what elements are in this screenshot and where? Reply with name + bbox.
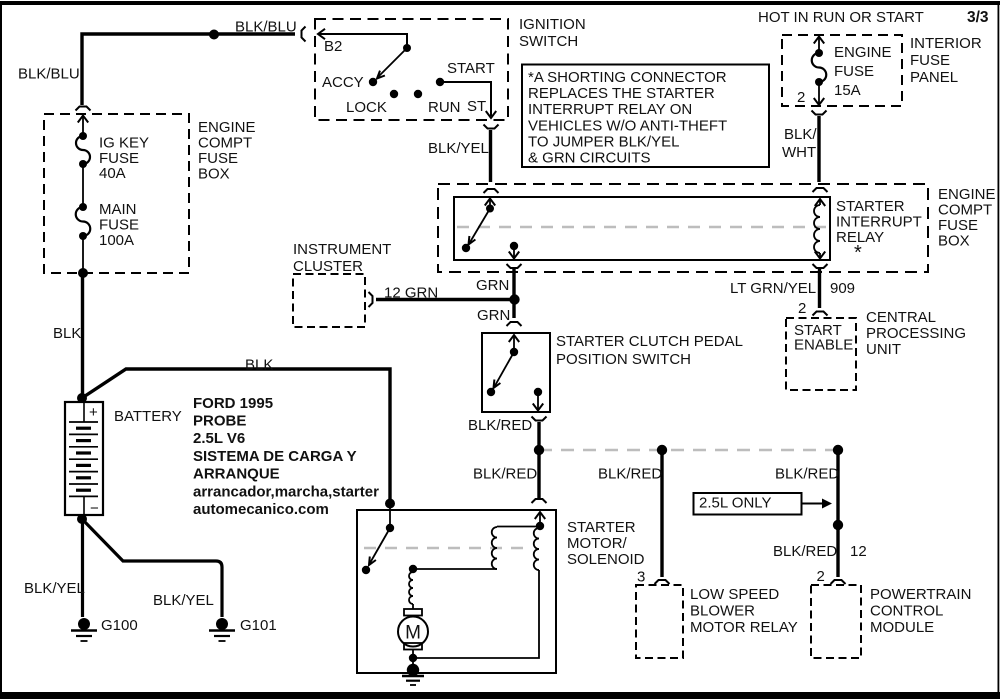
- connector into PCM: [831, 580, 846, 584]
- connector into blower relay: [655, 580, 670, 584]
- svg-text:40A: 40A: [99, 165, 126, 182]
- border frame: [0, 1, 1000, 5]
- contact ACCY: [369, 78, 377, 86]
- svg-text:15A: 15A: [834, 82, 861, 99]
- svg-text:ACCY: ACCY: [322, 74, 364, 91]
- svg-text:3: 3: [637, 568, 645, 585]
- fuse ENGINE FUSE 15A: [815, 49, 823, 57]
- arrow 2.5L ONLY pointer: [802, 503, 829, 505]
- connector into relay (switch side): [484, 189, 499, 193]
- motor M1 starter: [412, 604, 414, 609]
- motor field coil: [409, 572, 413, 604]
- svg-text:& GRN CIRCUITS: & GRN CIRCUITS: [528, 150, 651, 167]
- low speed blower motor relay box: [636, 585, 683, 658]
- connector into ignition switch: [302, 27, 306, 42]
- wire hold-in coil to motor bottom: [413, 570, 539, 658]
- wire pull-in coil to motor node: [413, 568, 497, 570]
- svg-text:FUSE: FUSE: [910, 52, 950, 69]
- wire 2.5L dashed bus: [539, 449, 838, 452]
- connector below relay (coil side): [813, 264, 828, 268]
- note box: [522, 65, 769, 168]
- svg-text:COMPT: COMPT: [198, 134, 252, 151]
- connector below ignition switch: [484, 125, 499, 129]
- ground starter case: [402, 675, 424, 678]
- solenoid pull-in coil: [492, 527, 497, 569]
- svg-text:M: M: [405, 623, 421, 644]
- node motor bottom: [409, 654, 417, 662]
- node motor top: [409, 565, 417, 573]
- svg-text:2: 2: [797, 89, 805, 106]
- svg-text:*: *: [854, 242, 862, 264]
- clutch switch contact: [487, 388, 495, 396]
- connector into engine compt fuse box: [76, 107, 91, 111]
- svg-text:3/3: 3/3: [967, 9, 989, 26]
- solenoid switch feed: [389, 505, 391, 528]
- svg-text:IGNITION: IGNITION: [519, 16, 586, 33]
- ignition switch wiper pivot: [403, 44, 411, 52]
- svg-text:CENTRAL: CENTRAL: [866, 309, 936, 326]
- svg-text:BLK/BLU: BLK/BLU: [18, 65, 80, 82]
- svg-text:START: START: [447, 60, 495, 77]
- svg-text:FUSE: FUSE: [938, 217, 978, 234]
- svg-text:BOX: BOX: [198, 165, 230, 182]
- solenoid switch pivot: [386, 524, 394, 532]
- svg-text:12 GRN: 12 GRN: [384, 284, 438, 301]
- ground G101: [216, 618, 228, 630]
- relay interior dashed line: [457, 226, 827, 228]
- svg-text:2.5L ONLY: 2.5L ONLY: [699, 494, 772, 511]
- node on PCM wire: [833, 520, 843, 530]
- svg-text:FUSE: FUSE: [198, 150, 238, 167]
- wire GRN upper: [512, 269, 515, 295]
- svg-text:REPLACES THE STARTER: REPLACES THE STARTER: [528, 85, 715, 102]
- interior fuse panel box: [782, 35, 902, 106]
- central processing unit box: [786, 318, 856, 390]
- wire START to ST output: [440, 82, 491, 116]
- svg-text:MOTOR/: MOTOR/: [567, 535, 628, 552]
- wire BLK/WHT: [817, 116, 820, 182]
- wire B2 feed inside ignition switch: [318, 34, 407, 46]
- svg-text:*A SHORTING CONNECTOR: *A SHORTING CONNECTOR: [528, 69, 727, 86]
- svg-text:PROBE: PROBE: [193, 413, 246, 430]
- svg-text:12: 12: [850, 543, 867, 560]
- svg-text:RUN: RUN: [428, 99, 461, 116]
- node solenoid coils junction: [536, 522, 544, 530]
- svg-text:BLK/RED: BLK/RED: [598, 465, 662, 482]
- svg-text:UNIT: UNIT: [866, 341, 901, 358]
- clutch switch output arrow: [537, 392, 539, 410]
- wire BLK/YEL ignition to relay: [489, 130, 492, 182]
- svg-text:BLK/YEL: BLK/YEL: [428, 140, 489, 157]
- connector into clutch pedal switch: [507, 322, 522, 326]
- svg-text:G101: G101: [240, 617, 277, 634]
- fuse MAIN FUSE 100A: [79, 203, 87, 211]
- wire to pull-in coil: [497, 526, 540, 528]
- ground G100: [78, 618, 90, 630]
- engine fuse output arrow: [818, 82, 820, 104]
- svg-text:FORD 1995: FORD 1995: [193, 395, 273, 412]
- svg-text:LOW SPEED: LOW SPEED: [690, 586, 779, 603]
- battery: [65, 402, 103, 515]
- svg-text:2: 2: [798, 300, 806, 317]
- svg-text:ENGINE: ENGINE: [198, 119, 256, 136]
- connector into starter solenoid: [532, 499, 547, 503]
- svg-text:HOT IN RUN OR START: HOT IN RUN OR START: [758, 9, 924, 26]
- wire GRN lower: [512, 303, 515, 318]
- svg-text:+: +: [89, 404, 98, 421]
- svg-text:SISTEMA DE CARGA Y: SISTEMA DE CARGA Y: [193, 448, 357, 465]
- connector below relay (switch side): [507, 264, 522, 268]
- node BLK/RED junction left: [534, 445, 544, 455]
- contact START: [436, 78, 444, 86]
- svg-text:ENGINE: ENGINE: [938, 186, 996, 203]
- svg-text:SOLENOID: SOLENOID: [567, 551, 645, 568]
- wire BLK/RED clutch switch to starter: [537, 422, 540, 498]
- wire BLK/RED to blower relay: [660, 452, 663, 577]
- wire battery negative to G100: [81, 519, 84, 617]
- node battery negative: [77, 514, 87, 524]
- ignition switch box: [315, 19, 508, 120]
- svg-text:CLUSTER: CLUSTER: [293, 258, 363, 275]
- node on starter case: [407, 664, 419, 676]
- wire BLK/RED to PCM: [836, 452, 839, 577]
- svg-text:BATTERY: BATTERY: [114, 408, 182, 425]
- svg-text:BLK/RED: BLK/RED: [473, 465, 537, 482]
- svg-text:LOCK: LOCK: [346, 99, 387, 116]
- svg-text:PANEL: PANEL: [910, 69, 958, 86]
- relay switch input arrow: [485, 199, 495, 206]
- node BLK at solenoid input: [385, 499, 395, 509]
- starter clutch pedal position switch box: [482, 333, 550, 412]
- svg-text:INSTRUMENT: INSTRUMENT: [293, 241, 391, 258]
- solenoid switch contact: [362, 566, 370, 574]
- wire fuse to box edge: [82, 236, 84, 273]
- node BLK/RED junction middle: [657, 445, 667, 455]
- svg-text:FUSE: FUSE: [99, 216, 139, 233]
- svg-text:PROCESSING: PROCESSING: [866, 325, 966, 342]
- box 2.5L ONLY: [694, 493, 802, 515]
- svg-text:GRN: GRN: [477, 307, 510, 324]
- engine fuse 15A feed arrow: [814, 37, 824, 44]
- contact LOCK: [390, 90, 398, 98]
- svg-text:B2: B2: [324, 38, 342, 55]
- svg-text:VEHICLES W/O ANTI-THEFT: VEHICLES W/O ANTI-THEFT: [528, 117, 727, 134]
- wire BLK battery feed: [81, 273, 84, 398]
- svg-text:BLK/YEL: BLK/YEL: [153, 592, 214, 609]
- svg-text:BLOWER: BLOWER: [690, 602, 755, 619]
- fuse IG KEY FUSE 40A: [79, 132, 87, 140]
- node BLK/RED junction right: [833, 445, 843, 455]
- clutch switch input arrow: [509, 335, 519, 342]
- wire battery negative to G101: [82, 519, 222, 617]
- wire motor to case ground: [412, 658, 414, 668]
- relay coil: [815, 199, 825, 206]
- svg-text:−: −: [90, 500, 99, 517]
- relay switch arm: [470, 209, 491, 244]
- svg-text:POWERTRAIN: POWERTRAIN: [870, 586, 971, 603]
- svg-text:MOTOR RELAY: MOTOR RELAY: [690, 619, 798, 636]
- svg-text:2.5L V6: 2.5L V6: [193, 430, 245, 447]
- svg-text:CONTROL: CONTROL: [870, 602, 943, 619]
- connector into central processing unit: [813, 312, 828, 316]
- svg-text:ARRANQUE: ARRANQUE: [193, 466, 280, 483]
- svg-text:G100: G100: [101, 617, 138, 634]
- svg-text:BLK/RED: BLK/RED: [775, 465, 839, 482]
- svg-text:SWITCH: SWITCH: [519, 33, 578, 50]
- clutch switch arm: [495, 352, 515, 387]
- wire BLK to starter (battery positive branch): [82, 369, 390, 500]
- wire between fuses: [82, 164, 84, 207]
- engine compt fuse box (relay area): [438, 184, 928, 272]
- svg-text:arrancador,marcha,starter: arrancador,marcha,starter: [193, 483, 379, 500]
- svg-text:STARTER: STARTER: [567, 519, 636, 536]
- instrument cluster box: [293, 274, 365, 327]
- svg-text:ST: ST: [467, 98, 486, 115]
- svg-text:STARTER: STARTER: [836, 198, 905, 215]
- ignition switch wiper arm: [379, 48, 408, 77]
- svg-text:MAIN: MAIN: [99, 201, 137, 218]
- connector at instrument cluster: [369, 292, 373, 307]
- node splice on BLK/BLU wire: [209, 30, 219, 40]
- svg-text:FUSE: FUSE: [834, 63, 874, 80]
- solenoid input arrow: [535, 512, 545, 519]
- wire BLK/BLU from battery branch to ignition switch: [82, 34, 295, 105]
- svg-text:INTERRUPT: INTERRUPT: [836, 213, 922, 230]
- relay switch pivot: [486, 205, 494, 213]
- svg-text:BLK: BLK: [53, 325, 81, 342]
- svg-text:POSITION SWITCH: POSITION SWITCH: [556, 351, 691, 368]
- svg-text:BLK: BLK: [245, 356, 273, 373]
- svg-text:BLK/RED: BLK/RED: [468, 417, 532, 434]
- node GRN junction: [509, 294, 519, 304]
- solenoid switch arm: [370, 528, 390, 563]
- svg-text:WHT: WHT: [782, 144, 816, 161]
- powertrain control module box: [811, 585, 861, 658]
- svg-text:INTERRUPT RELAY ON: INTERRUPT RELAY ON: [528, 101, 692, 118]
- solenoid hold-in coil: [534, 528, 539, 570]
- connector below clutch pedal switch: [532, 417, 547, 421]
- svg-text:GRN: GRN: [476, 277, 509, 294]
- clutch switch output contact: [534, 388, 542, 396]
- svg-text:STARTER CLUTCH PEDAL: STARTER CLUTCH PEDAL: [556, 333, 743, 350]
- svg-text:automecanico.com: automecanico.com: [193, 501, 329, 518]
- node battery positive: [77, 393, 87, 403]
- svg-text:INTERIOR: INTERIOR: [910, 35, 982, 52]
- svg-text:TO JUMPER BLK/YEL: TO JUMPER BLK/YEL: [528, 133, 679, 150]
- starter interrupt relay box: [454, 197, 830, 260]
- engine compt fuse box (left): [44, 114, 189, 273]
- svg-text:BOX: BOX: [938, 232, 970, 249]
- wire LT GRN/YEL: [818, 269, 821, 308]
- relay switch contact: [462, 244, 470, 252]
- svg-text:IG KEY: IG KEY: [99, 134, 149, 151]
- svg-text:BLK/: BLK/: [784, 126, 817, 143]
- svg-text:100A: 100A: [99, 232, 134, 249]
- arrow into B2: [318, 29, 325, 39]
- starter interior dashed line: [364, 547, 524, 549]
- starter motor/solenoid box: [357, 510, 556, 673]
- relay switch output arrow: [513, 246, 515, 257]
- svg-text:BLK/YEL: BLK/YEL: [24, 580, 85, 597]
- svg-text:ENGINE: ENGINE: [834, 44, 892, 61]
- svg-text:MODULE: MODULE: [870, 619, 934, 636]
- node at fuse box exit: [78, 268, 88, 278]
- svg-text:2: 2: [817, 568, 825, 585]
- svg-text:ENABLE: ENABLE: [794, 336, 853, 353]
- svg-text:BLK/BLU: BLK/BLU: [235, 18, 297, 35]
- relay switch output contact: [510, 242, 518, 250]
- clutch switch pivot: [510, 348, 518, 356]
- connector below interior fuse panel: [812, 111, 827, 115]
- svg-text:909: 909: [830, 280, 855, 297]
- wire 12 GRN to instrument cluster: [376, 298, 514, 301]
- contact RUN: [414, 90, 422, 98]
- ig key fuse feed arrow: [78, 116, 88, 123]
- svg-text:COMPT: COMPT: [938, 201, 992, 218]
- connector into relay (coil side): [813, 188, 828, 192]
- svg-text:BLK/RED: BLK/RED: [773, 543, 837, 560]
- svg-text:LT GRN/YEL: LT GRN/YEL: [730, 280, 816, 297]
